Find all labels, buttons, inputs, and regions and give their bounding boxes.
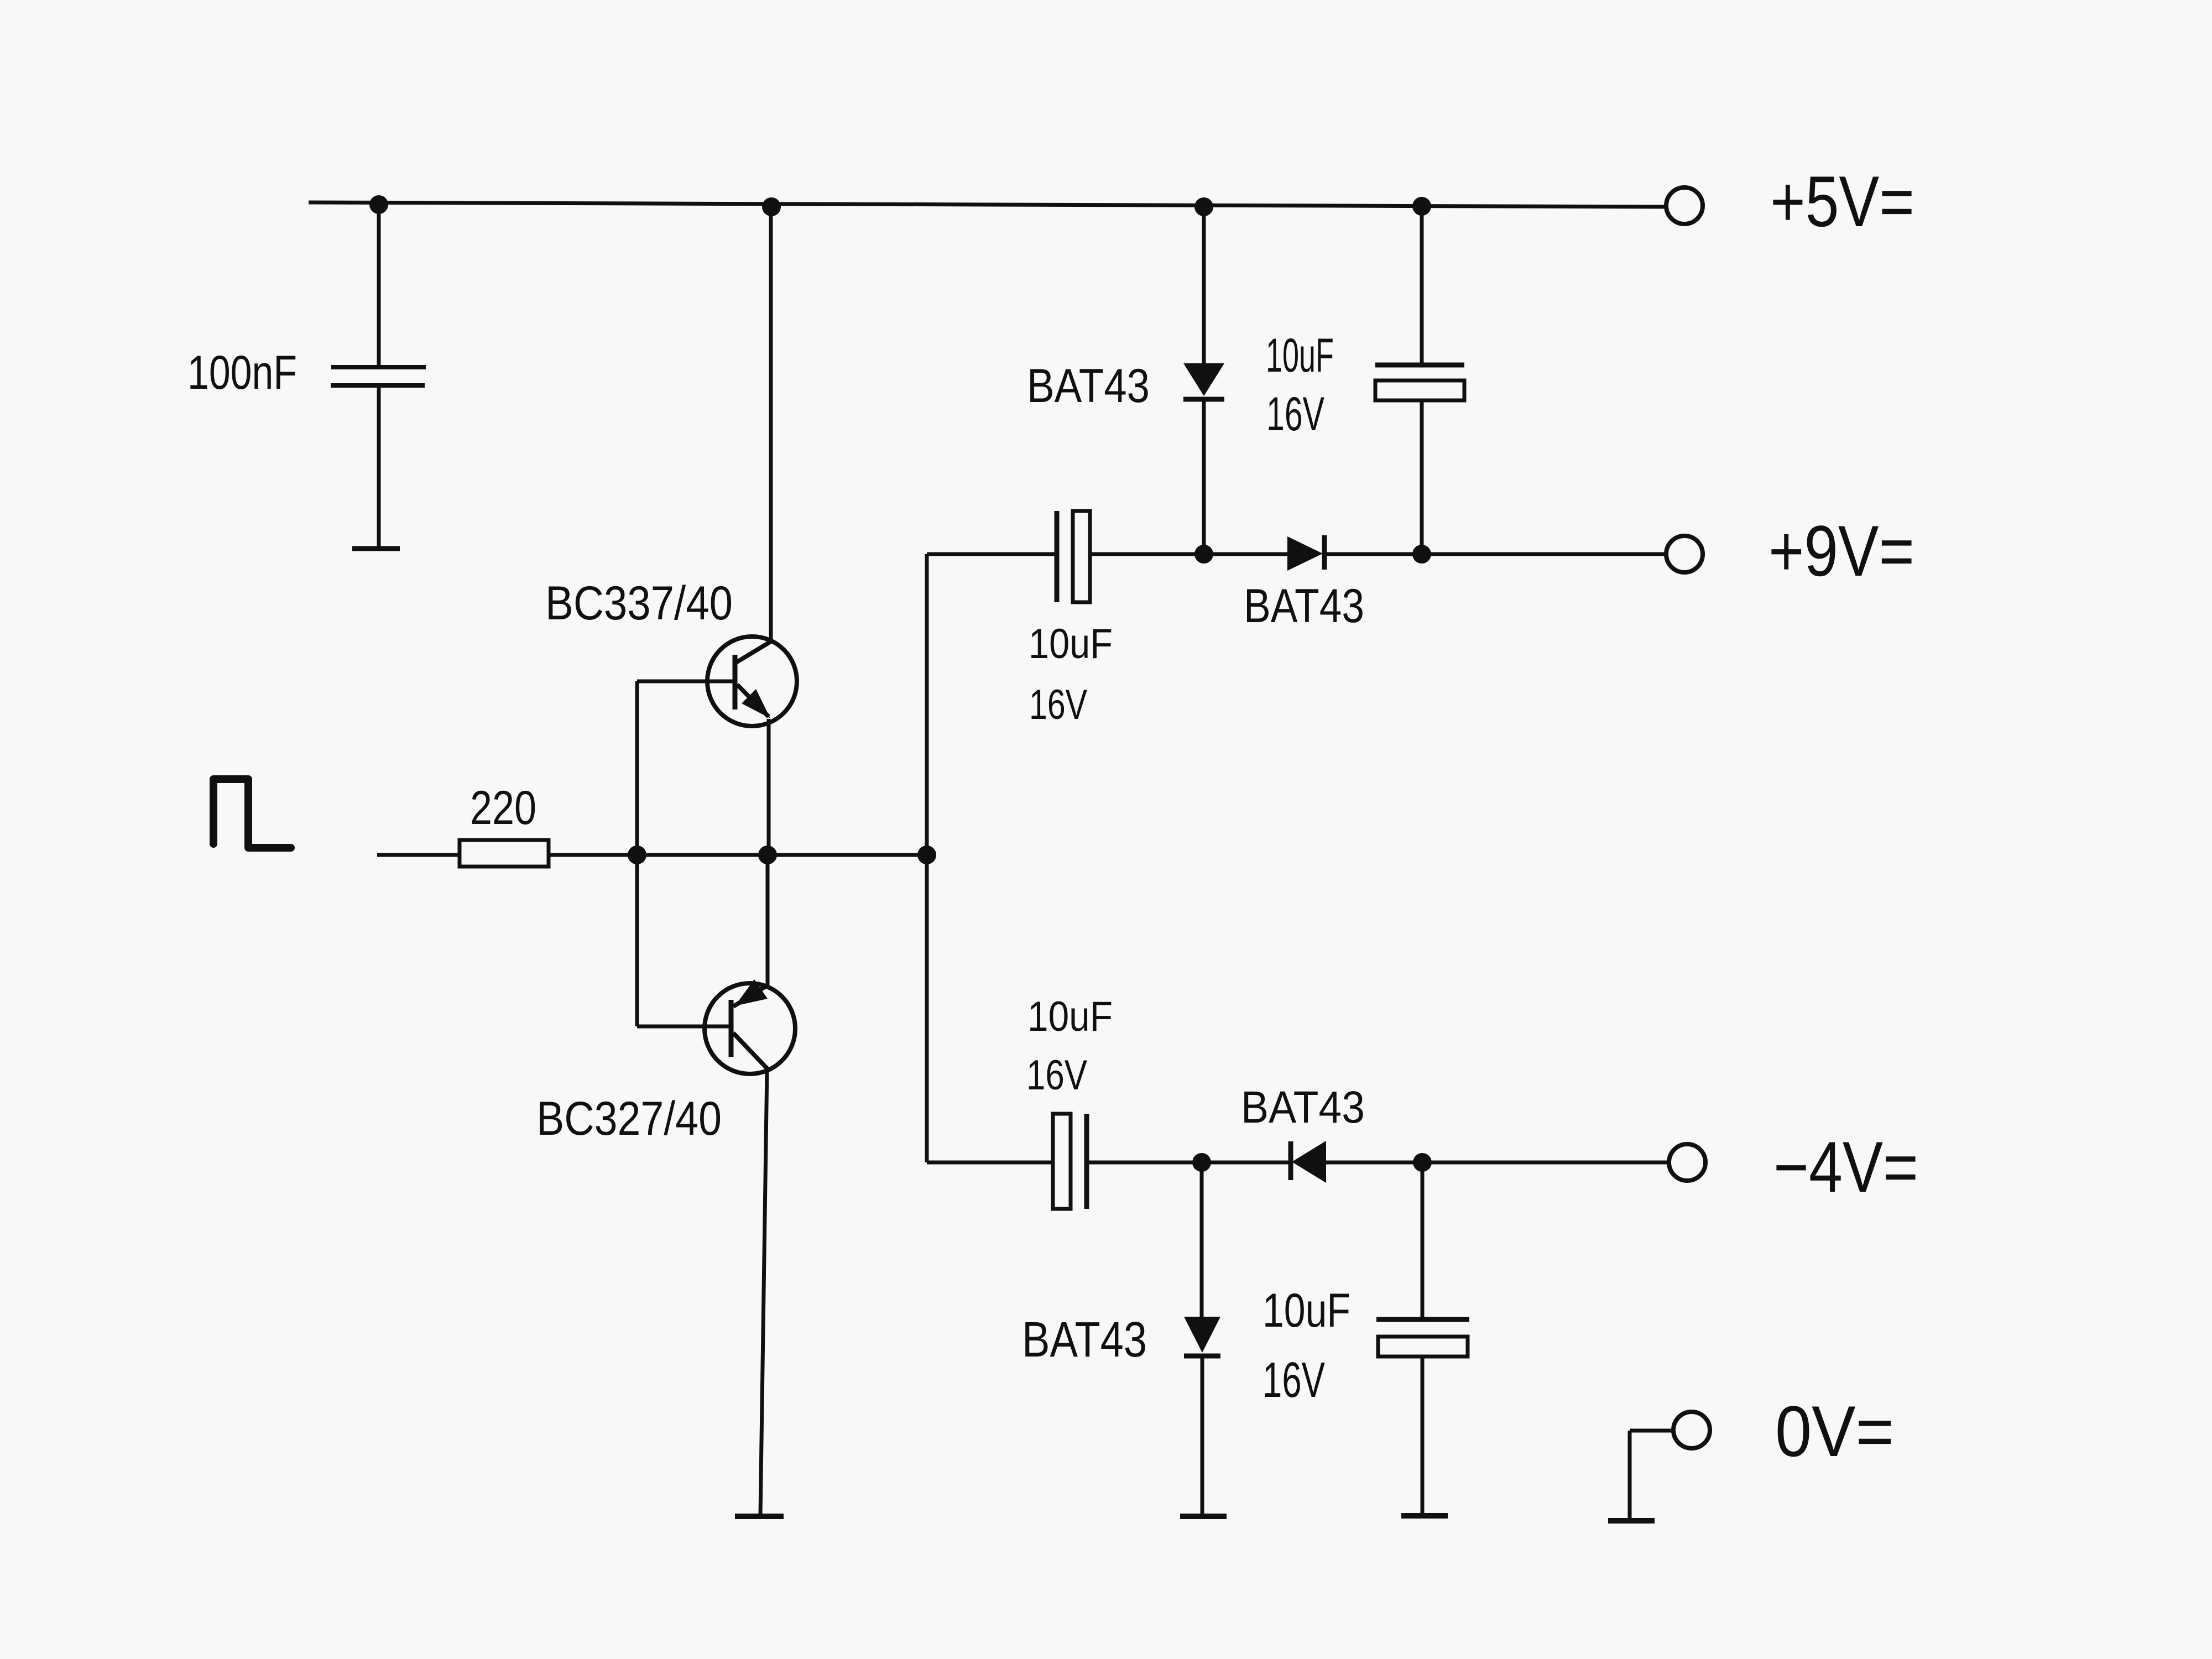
wire Q2 emitter lead (766, 855, 770, 986)
wire 100nF lower lead (377, 388, 381, 546)
wire C4 to -4V node (1087, 1161, 1202, 1165)
wire to C4 (927, 1161, 1054, 1165)
svg-text:BAT43: BAT43 (1022, 1312, 1147, 1368)
svg-text:10uF: 10uF (1262, 1284, 1350, 1337)
wire +9V node to D2 (1204, 552, 1288, 556)
svg-text:BC337/40: BC337/40 (545, 577, 733, 630)
svg-text:BAT43: BAT43 (1241, 1082, 1365, 1133)
ground 100nF end bar (352, 546, 400, 551)
capacitor C3 10uF 16V (1375, 365, 1464, 400)
node junction C3 / +9V row (1412, 545, 1431, 564)
terminal -4V (1669, 1144, 1705, 1181)
wire input lead (377, 853, 460, 857)
wire pump column vertical (925, 554, 929, 1162)
wire Q2 collector lead (760, 1070, 767, 1515)
wire D2 to +9V terminal (1325, 552, 1666, 556)
diode D1 BAT43 (1183, 363, 1224, 399)
transistor Q1 BC337/40 (707, 637, 797, 726)
svg-text:100nF: 100nF (187, 346, 297, 399)
node junction C5 / -4V row (1413, 1153, 1432, 1172)
svg-text:+5V=: +5V= (1770, 161, 1914, 242)
wire C5 lower lead (1421, 1357, 1425, 1515)
wire C5 upper lead (1421, 1162, 1425, 1318)
terminal +9V (1666, 536, 1703, 572)
ground C5 bar (1401, 1513, 1448, 1519)
ground D4 bar (1180, 1514, 1227, 1519)
wire mid emitter row (549, 853, 927, 857)
capacitor C2 10uF 16V (1057, 511, 1090, 602)
ground 0V bar (1608, 1518, 1655, 1524)
wire Q2 base lead (637, 1025, 730, 1029)
wire Q1 collector lead (769, 207, 773, 643)
svg-text:BAT43: BAT43 (1244, 580, 1364, 633)
node junction top rail / Q1 collector (762, 197, 781, 216)
wire D1 upper lead (1202, 207, 1206, 363)
node junction D4 / -4V row (1192, 1153, 1211, 1172)
svg-text:BAT43: BAT43 (1027, 359, 1150, 413)
terminal 0V (1673, 1412, 1710, 1448)
node input square wave symbol (213, 779, 291, 848)
wire C3 lower lead (1420, 400, 1424, 554)
wire 0V hook (1630, 1431, 1673, 1518)
svg-text:BC327/40: BC327/40 (536, 1092, 722, 1145)
wire 100nF upper lead (377, 205, 381, 365)
transistor Q2 BC327/40 (705, 979, 795, 1074)
svg-text:16V: 16V (1262, 1353, 1325, 1408)
svg-text:0V=: 0V= (1775, 1391, 1894, 1472)
diode D3 BAT43 (1291, 1141, 1326, 1183)
svg-text:10uF: 10uF (1266, 329, 1334, 382)
wire D4 upper lead (1200, 1162, 1204, 1317)
diode D4 BAT43 (1184, 1317, 1220, 1356)
diode D2 BAT43 (1287, 535, 1324, 571)
node junction emitters / mid row (758, 846, 777, 864)
resistor R1 220 (460, 840, 549, 867)
node junction mid row / pump column (917, 846, 936, 864)
svg-text:10uF: 10uF (1027, 993, 1113, 1040)
wire D1 lower lead (1202, 399, 1206, 554)
wire Q1 base lead (637, 680, 734, 684)
node junction top rail / C3 (1412, 197, 1431, 216)
wire Q1 emitter lead (767, 719, 771, 855)
node junction top rail / 100nF (369, 195, 388, 214)
node junction D1 / +9V row (1194, 545, 1213, 564)
svg-text:10uF: 10uF (1029, 620, 1113, 667)
node junction base bus / mid row (628, 846, 646, 864)
wire D4 lower lead (1201, 1356, 1204, 1515)
wire D3 to -4V terminal (1326, 1161, 1669, 1165)
capacitor C1 100nF (331, 367, 426, 385)
svg-text:16V: 16V (1029, 681, 1087, 728)
wire C2 to +9V node (1090, 552, 1204, 556)
svg-text:+9V=: +9V= (1768, 510, 1914, 591)
svg-text:−4V=: −4V= (1773, 1126, 1918, 1207)
svg-text:16V: 16V (1266, 388, 1324, 441)
wire -4V node to D3 (1202, 1161, 1291, 1165)
ground Q2 collector bar (735, 1514, 784, 1519)
svg-text:16V: 16V (1026, 1052, 1087, 1099)
wire to C2 (927, 552, 1058, 556)
wire C3 upper lead (1420, 206, 1424, 365)
node junction top rail / D1 (1194, 197, 1213, 216)
wire base bus vertical (635, 681, 639, 1026)
capacitor C5 10uF 16V (1376, 1319, 1469, 1357)
terminal +5V (1666, 187, 1703, 224)
wire +5V top rail (309, 202, 1666, 207)
capacitor C4 10uF 16V (1053, 1114, 1087, 1209)
svg-text:220: 220 (470, 781, 536, 834)
